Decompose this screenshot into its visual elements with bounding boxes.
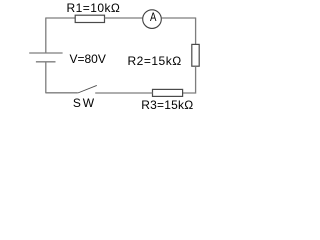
label SW [73,97,96,109]
label R2 value [128,55,182,67]
label V value [70,53,106,65]
ammeter U1 [143,10,162,29]
wire R3 to switch [95,92,152,94]
resistor R1 [75,15,104,22]
wire left side lower [45,62,47,94]
wire top-left segment [46,17,75,19]
label R1 value [67,2,121,14]
wire right side upper [195,18,197,45]
battery V1 short plate [36,61,56,63]
label R3 value [141,99,193,111]
battery V1 long plate [29,52,62,54]
switch SW blade [78,85,97,93]
wire left side upper [45,18,47,54]
label ammeter A [150,11,156,23]
wire ammeter to top-right corner [162,17,197,19]
resistor R3 [153,89,183,96]
resistor R2 [192,44,199,66]
wire switch to bottom-left corner [46,92,78,94]
wire R1 to ammeter [105,17,143,19]
wire right side lower [183,66,196,93]
